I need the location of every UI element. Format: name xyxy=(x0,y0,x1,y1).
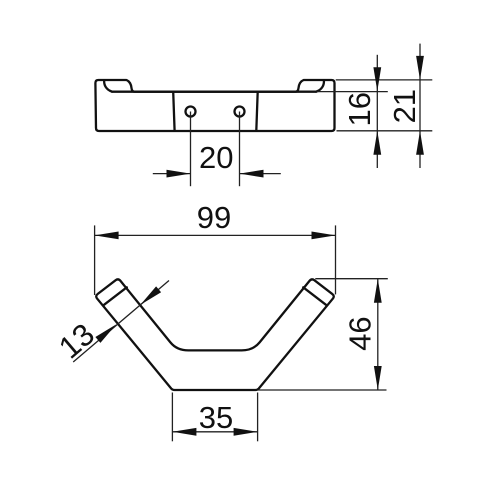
front view: left tip chamfer line xyxy=(103,287,127,305)
svg-text:20: 20 xyxy=(199,140,233,175)
front view: right tip chamfer line xyxy=(303,287,327,305)
dimension 35: extension lines xyxy=(171,393,173,442)
dimension 46: dimension line and arrows xyxy=(377,279,379,390)
top view: right mounting hole xyxy=(235,107,245,117)
top view: left mounting hole xyxy=(186,107,196,117)
svg-text:35: 35 xyxy=(199,400,233,435)
dimension 35: dimension line and arrows xyxy=(172,431,257,433)
svg-text:46: 46 xyxy=(342,316,377,350)
dimension 13: dimension line and arrows xyxy=(73,281,169,363)
top view: left division edge xyxy=(173,92,174,131)
extension line: bottom edge xyxy=(337,130,433,132)
dimension 20: hole leader lines xyxy=(190,112,192,187)
extension line: top edge xyxy=(336,79,433,81)
front view: V-shaped double hook outline xyxy=(96,279,334,390)
top view: right lip inner curve xyxy=(316,80,324,91)
top view: ledge edge line xyxy=(112,91,316,93)
dimension 99: extension lines xyxy=(94,225,96,295)
top view: hook body outline xyxy=(95,80,334,131)
top view: right division edge xyxy=(256,92,257,131)
dimension 20: dimension line and arrows xyxy=(153,173,191,175)
dimension 16: dimension line and arrows xyxy=(376,55,378,168)
extension line: ledge edge xyxy=(317,91,388,93)
top view: left lip inner curve xyxy=(104,80,112,91)
dimension 46: extension lines xyxy=(315,278,388,280)
dimension 21: dimension line and arrows xyxy=(419,44,421,168)
svg-text:21: 21 xyxy=(387,89,422,123)
dimension 99: dimension line and arrows xyxy=(95,234,336,236)
svg-text:99: 99 xyxy=(197,200,231,235)
svg-text:16: 16 xyxy=(342,92,377,126)
